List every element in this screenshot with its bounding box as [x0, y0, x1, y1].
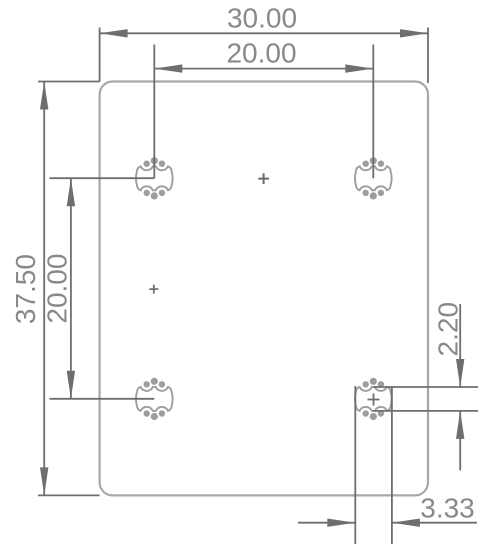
dimension 2.20: upper leader line [459, 304, 461, 387]
center marker pad P4 [368, 394, 380, 406]
center marker left column [149, 285, 158, 294]
dimension 20.00 horizontal: extension line right [372, 45, 374, 179]
dimension 3.33: extension line right [391, 386, 393, 544]
dimension 2.20: lower leader line [459, 411, 461, 471]
pad P3 bottom-left [136, 378, 173, 420]
dimension 3.33: left arrowhead [327, 519, 355, 527]
svg-text:20.00: 20.00 [42, 254, 73, 324]
center marker top row [258, 173, 269, 184]
dimension 2.20: extension line top [373, 386, 478, 388]
svg-text:3.33: 3.33 [420, 492, 475, 523]
pad P1 top-left [136, 157, 173, 199]
dimension 3.33: right leader line [392, 522, 477, 524]
dimension 20.00 vertical: extension line top [50, 177, 155, 179]
dimension 30.00: extension line left [99, 28, 101, 82]
svg-text:20.00: 20.00 [226, 37, 296, 68]
dimension 30.00: dimension line [100, 32, 428, 34]
dimension 3.33: extension line left [354, 386, 356, 544]
dimension 20.00 horizontal: right arrowhead [345, 64, 373, 72]
dimension 37.50: top arrowhead [40, 82, 48, 110]
dimension 37.50: dimension line [43, 82, 45, 496]
dimension 37.50: bottom arrowhead [40, 467, 48, 495]
dimension 20.00 horizontal: dimension line [154, 68, 373, 70]
plate outline [100, 82, 428, 496]
svg-text:2.20: 2.20 [432, 302, 463, 357]
dimension 30.00: right arrowhead [400, 29, 428, 37]
pad P2 top-right [355, 157, 392, 199]
dimension 2.20: upper arrowhead [456, 359, 464, 387]
dimension 20.00 horizontal: extension line left [153, 45, 155, 179]
dimension 20.00 vertical: bottom arrowhead [67, 371, 75, 399]
dimension 3.33: left leader line [298, 522, 355, 524]
dimension 37.50: extension line top [38, 81, 100, 83]
dimension 20.00 vertical: extension line bottom [50, 398, 155, 400]
dimension 30.00: left arrowhead [100, 29, 128, 37]
svg-text:30.00: 30.00 [227, 2, 297, 33]
dimension 30.00: extension line right [427, 28, 429, 84]
dimension 2.20: extension line bottom [373, 410, 478, 412]
dimension 20.00 vertical: top arrowhead [67, 178, 75, 206]
dimension 20.00 horizontal: left arrowhead [154, 64, 182, 72]
pad P4 bottom-right [355, 378, 392, 420]
svg-text:37.50: 37.50 [10, 254, 41, 324]
dimension 2.20: lower arrowhead [456, 411, 464, 439]
dimension 3.33: right arrowhead [392, 519, 420, 527]
dimension 20.00 vertical: dimension line [70, 178, 72, 399]
dimension 37.50: extension line bottom [38, 494, 100, 496]
